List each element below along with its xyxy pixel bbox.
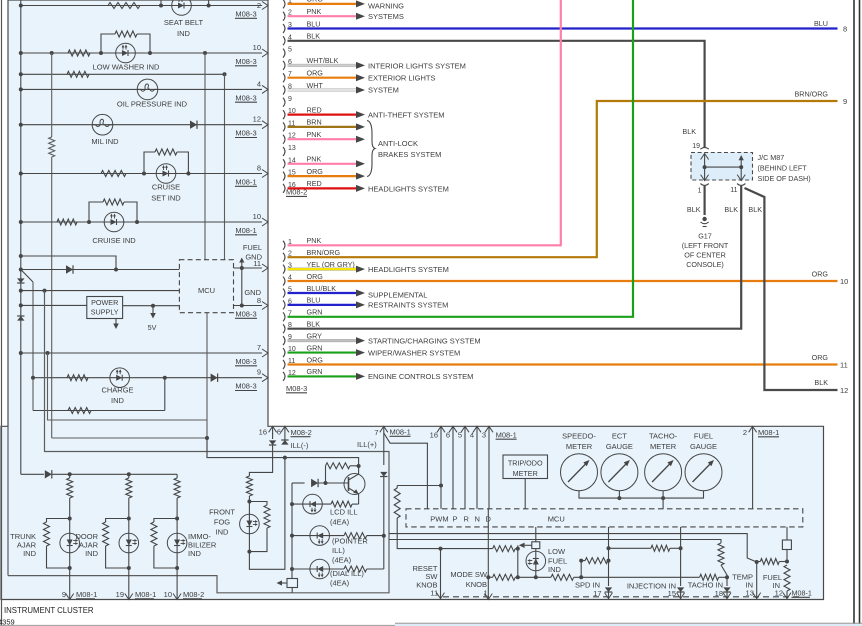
svg-text:CONSOLE): CONSOLE) (686, 260, 724, 269)
mcu bottom wire down (206, 313, 208, 458)
svg-text:12: 12 (840, 386, 848, 395)
svg-text:13: 13 (746, 589, 754, 598)
svg-text:9: 9 (843, 97, 847, 106)
pin 2 M08-1 top (749, 426, 757, 432)
M08-3 pin 9 (283, 336, 285, 345)
svg-text:(4EA): (4EA) (332, 556, 352, 565)
M08-3 pin 11 (283, 360, 285, 369)
wire ORG pin4 to right edge (288, 280, 838, 282)
svg-text:M08-1: M08-1 (792, 589, 812, 598)
DIAL ILL LED (310, 559, 330, 579)
svg-text:BLK: BLK (748, 205, 762, 214)
svg-text:16: 16 (259, 428, 267, 437)
svg-text:GRN: GRN (307, 308, 323, 317)
M08-2 pin 3 (283, 24, 285, 33)
svg-text:ORG: ORG (307, 355, 324, 364)
low fuel feed column (517, 545, 519, 577)
svg-text:BLK: BLK (724, 205, 738, 214)
svg-text:11: 11 (730, 187, 737, 194)
svg-text:OF CENTER: OF CENTER (684, 251, 726, 260)
left vertical bus (20, 0, 22, 474)
svg-text:BLU/BLK: BLU/BLK (307, 284, 337, 293)
svg-text:PNK: PNK (307, 7, 322, 16)
fuel sender resistor row (757, 561, 761, 563)
svg-text:EXTERIOR LIGHTS: EXTERIOR LIGHTS (368, 74, 436, 83)
svg-text:PNK: PNK (307, 130, 322, 139)
svg-text:M08-1: M08-1 (758, 428, 779, 437)
M08-3 pin 12 (283, 372, 285, 381)
dial resistor (344, 566, 367, 572)
svg-text:SUPPLY: SUPPLY (91, 308, 119, 317)
trunk LED (60, 533, 80, 553)
svg-text:R: R (464, 515, 470, 524)
reset sw resistor drop (396, 486, 398, 489)
front fog LED (240, 514, 260, 534)
svg-text:M08-1: M08-1 (235, 226, 256, 235)
svg-text:PNK: PNK (307, 236, 322, 245)
svg-text:ANTI-LOCK: ANTI-LOCK (378, 139, 418, 148)
svg-text:6: 6 (446, 430, 450, 439)
front fog bypass resistor (249, 502, 267, 506)
tacho row / column (700, 574, 719, 580)
svg-text:M08-1: M08-1 (390, 428, 411, 437)
svg-text:SIDE OF DASH): SIDE OF DASH) (758, 174, 811, 183)
svg-text:WHT/BLK: WHT/BLK (307, 56, 339, 65)
svg-text:ILL): ILL) (332, 546, 345, 555)
svg-text:MODE SW: MODE SW (450, 570, 488, 579)
svg-text:M08-3: M08-3 (235, 57, 256, 66)
row y560.6 to spd col (579, 559, 583, 563)
bias resistor (325, 466, 327, 483)
diode on MIL row (190, 121, 197, 129)
fuel in resistor (784, 565, 790, 591)
gauge bus (579, 491, 704, 498)
svg-text:IND: IND (23, 549, 37, 558)
ECT gauge (601, 454, 638, 491)
svg-text:11: 11 (253, 259, 261, 268)
M08-2 pin 2 (283, 12, 285, 21)
POINTER ILL LED (310, 526, 330, 546)
fuel gauge (685, 454, 722, 491)
rail y539.5 from x389 (389, 540, 721, 544)
svg-text:5V: 5V (148, 323, 157, 332)
svg-text:10: 10 (164, 590, 172, 599)
row charge (y=377.7) (31, 376, 35, 380)
svg-text:BLU: BLU (307, 19, 321, 28)
M08-2 pin 10 (283, 110, 285, 119)
svg-text:M08-1: M08-1 (235, 178, 256, 187)
wire down to MCU from low washer row (204, 53, 206, 260)
svg-text:ILL(+): ILL(+) (357, 440, 377, 449)
diagonal from bus to x33 (21, 270, 33, 283)
svg-text:9: 9 (288, 96, 292, 103)
svg-text:WARNING: WARNING (368, 2, 404, 11)
svg-text:HEADLIGHTS SYSTEM: HEADLIGHTS SYSTEM (368, 184, 449, 193)
svg-text:PNK: PNK (307, 155, 322, 164)
diode to transistor base (311, 479, 318, 487)
svg-text:TACHO-: TACHO- (649, 432, 678, 441)
svg-text:GRY: GRY (307, 331, 323, 340)
diode down on bus (17, 278, 24, 283)
transistor Q1 (344, 474, 365, 495)
svg-text:IND: IND (177, 29, 191, 38)
svg-text:8: 8 (257, 164, 261, 173)
svg-text:FOG: FOG (214, 518, 230, 527)
svg-text:12: 12 (253, 115, 261, 124)
door LED (119, 533, 139, 553)
svg-text:RESTRAINTS SYSTEM: RESTRAINTS SYSTEM (368, 301, 448, 310)
svg-text:3: 3 (482, 430, 486, 439)
M08-2 pin 13 (283, 147, 285, 156)
svg-text:SUPPLEMENTAL: SUPPLEMENTAL (368, 291, 427, 300)
lamp oil pressure IND (137, 79, 158, 100)
ILL+ diode (380, 472, 387, 477)
svg-text:YEL (OR GRY): YEL (OR GRY) (307, 260, 355, 269)
M08-3 pin 4 (283, 277, 285, 286)
svg-text:8: 8 (257, 296, 261, 305)
trunk ajar branch (68, 472, 72, 476)
svg-text:ANTI-THEFT SYSTEM: ANTI-THEFT SYSTEM (368, 111, 445, 120)
lamp MIL IND (92, 114, 113, 135)
svg-text:POWER: POWER (91, 298, 118, 307)
svg-text:SEAT BELT: SEAT BELT (164, 18, 204, 27)
svg-text:FRONT: FRONT (209, 508, 235, 517)
x292 vertical (291, 483, 293, 569)
door ajar branch (127, 472, 131, 476)
svg-text:10: 10 (253, 43, 261, 52)
M08-3 pin 2 (283, 253, 285, 262)
svg-text:METER: METER (566, 442, 593, 451)
pin 16 M08-2 ILL- top (269, 426, 277, 432)
immo pin wire down (176, 568, 178, 600)
svg-text:M08-3: M08-3 (235, 129, 256, 138)
svg-text:N: N (475, 515, 480, 524)
svg-text:P: P (453, 515, 458, 524)
right page border double line (853, 0, 855, 626)
pins 16 6 5 4 3 M08-1 top (437, 426, 445, 432)
svg-text:M08-3: M08-3 (235, 93, 256, 102)
svg-text:BLU: BLU (307, 296, 321, 305)
svg-text:5: 5 (288, 47, 292, 54)
svg-text:(LEFT FRONT: (LEFT FRONT (682, 241, 729, 250)
pin7 diagonal branch wire (384, 433, 428, 509)
speedometer gauge (561, 454, 598, 491)
LOW FUEL IND LED (526, 551, 546, 571)
row oil pressure wire (21, 88, 262, 90)
ground G17 symbol (702, 217, 706, 221)
svg-text:MCU: MCU (198, 286, 215, 295)
M08-2 pin 12 (283, 135, 285, 144)
wire BLK pin8 to J/C M87 (288, 186, 742, 329)
svg-text:ORG: ORG (307, 167, 324, 176)
svg-text:BLK: BLK (814, 378, 828, 387)
pin 2 M08-3 seat belt (262, 2, 268, 10)
J/C pin 1 terminal arc (700, 184, 708, 186)
svg-text:LOW WASHER IND: LOW WASHER IND (93, 63, 160, 72)
svg-text:HEADLIGHTS SYSTEM: HEADLIGHTS SYSTEM (368, 265, 449, 274)
svg-text:IND: IND (548, 565, 562, 574)
svg-text:BRN: BRN (307, 118, 322, 127)
svg-text:CRUISE: CRUISE (152, 183, 180, 192)
diode on trunk feed row (45, 470, 52, 478)
J/C internal up arrow (740, 159, 742, 168)
resistor charge (67, 375, 88, 381)
wire ps to mcu with 5V stub (123, 305, 180, 307)
pin 9 M08-3 charge (262, 374, 268, 382)
trunk pin wire down (69, 568, 71, 600)
wire x47.5 feed (48, 353, 208, 420)
svg-text:STARTING/CHARGING SYSTEM: STARTING/CHARGING SYSTEM (368, 336, 481, 345)
wire down to MCU from row2 (224, 74, 226, 259)
svg-text:ENGINE CONTROLS SYSTEM: ENGINE CONTROLS SYSTEM (368, 372, 473, 381)
door pin wire down (128, 568, 130, 600)
svg-text:10: 10 (840, 277, 848, 286)
svg-text:2: 2 (257, 1, 261, 10)
spd column (608, 527, 610, 586)
svg-text:IND: IND (188, 549, 202, 558)
svg-text:SYSTEM: SYSTEM (368, 86, 399, 95)
svg-text:(4EA): (4EA) (330, 518, 350, 527)
M08-2 pin 9 (283, 98, 285, 107)
svg-text:9: 9 (62, 590, 66, 599)
LED charge IND (110, 368, 130, 388)
svg-text:7: 7 (257, 343, 261, 352)
svg-text:1: 1 (698, 188, 702, 195)
off-page square with arrow (291, 569, 293, 579)
wire GRN pin7 up (288, 0, 634, 317)
svg-text:J/C M87: J/C M87 (758, 153, 785, 162)
svg-text:SPEEDO-: SPEEDO- (562, 432, 596, 441)
M08-2 pin 11 (283, 122, 285, 131)
M08-2 pin 15 (283, 172, 285, 181)
svg-text:LOW: LOW (548, 547, 566, 556)
pin 10 M08-1 cruise (262, 218, 268, 226)
row second resistor wire (21, 73, 225, 75)
svg-text:10: 10 (253, 212, 261, 221)
row seat belt wire (21, 5, 262, 7)
M08-2 pin 16 (283, 184, 285, 193)
trip/odo meter box (503, 455, 548, 479)
svg-text:IND: IND (216, 528, 230, 537)
M08-2 pin 5 (283, 49, 285, 58)
ILL- rail to transistor collector done above; base diode row (292, 482, 305, 484)
arrow and square (mcu drive) (519, 543, 525, 548)
rail y533.6 from x389 (389, 534, 757, 562)
injection column (680, 527, 682, 586)
J/C internal bar (705, 166, 742, 168)
mcu gnd pin 8 (234, 305, 263, 307)
svg-text:MCU: MCU (548, 515, 565, 524)
svg-text:CHARGE: CHARGE (101, 386, 133, 395)
ILL+ pin 7 M08-1 top (380, 426, 388, 432)
svg-text:19: 19 (116, 590, 124, 599)
pin 6 M08-2 ILL- top (281, 426, 289, 432)
svg-text:12: 12 (775, 589, 783, 598)
svg-text:BLK: BLK (307, 32, 321, 41)
pin 8 M08-1 cruise set (262, 170, 268, 178)
svg-text:4359: 4359 (0, 618, 15, 626)
svg-text:13: 13 (288, 145, 296, 152)
tachometer gauge (645, 454, 682, 491)
svg-text:ORG: ORG (307, 272, 324, 281)
wire BRN/ORG pin2 to right edge (288, 101, 838, 257)
MCU box bottom (dashed) (406, 509, 803, 527)
svg-text:SET IND: SET IND (151, 194, 181, 203)
row lower resistor loop (y=410.5) (33, 410, 165, 412)
row cruise ind wire (21, 221, 262, 223)
svg-text:BLK: BLK (307, 320, 321, 329)
front fog resistor (246, 476, 252, 496)
wire x51.7 feed (52, 437, 207, 439)
left page border (1, 0, 3, 626)
svg-text:M08-3: M08-3 (286, 384, 307, 393)
svg-text:LCD ILL: LCD ILL (330, 508, 358, 517)
svg-text:GRN: GRN (307, 367, 323, 376)
svg-text:TRIP/ODO: TRIP/ODO (508, 459, 543, 468)
M08-3 pin 10 (283, 348, 285, 357)
M08-2 pin 8 (283, 86, 285, 95)
svg-text:ORG: ORG (307, 69, 324, 78)
M08-3 pin 5 (283, 288, 285, 297)
wire BLK pin4 to J/C M87 (288, 41, 705, 148)
wire pin1 to G17 ground (703, 186, 705, 215)
svg-text:BLK: BLK (682, 127, 696, 136)
svg-text:M08-3: M08-3 (235, 357, 256, 366)
svg-text:9: 9 (257, 368, 261, 377)
brace anti-lock (367, 121, 375, 177)
pin 10 M08-3 low washer (262, 49, 268, 57)
svg-text:CRUISE IND: CRUISE IND (92, 236, 136, 245)
svg-text:RED: RED (307, 105, 322, 114)
node stubs up (cropped) (159, 4, 163, 8)
svg-text:M08-2: M08-2 (291, 428, 312, 437)
wire BLU pin3 to right edge (288, 27, 838, 29)
temp resistor (718, 543, 724, 565)
pin 4 M08-3 oil pressure (262, 85, 268, 93)
pointer resistor (344, 533, 367, 539)
svg-text:(4EA): (4EA) (330, 579, 350, 588)
MCU box top-left (dashed) (179, 260, 233, 313)
front fog to pin6 wire (249, 458, 285, 570)
svg-text:7: 7 (374, 428, 378, 437)
svg-text:11: 11 (840, 361, 848, 370)
svg-text:M08-3: M08-3 (235, 10, 256, 19)
LCD resistor (331, 501, 352, 507)
LED seat belt IND (172, 0, 192, 15)
mode sw row y577.3 (486, 575, 490, 579)
svg-text:ORG: ORG (812, 353, 829, 362)
wire PNK pin1 up (288, 0, 561, 245)
svg-text:4: 4 (470, 430, 474, 439)
junction connector J/C M87 box (691, 153, 753, 181)
svg-text:16: 16 (430, 430, 438, 439)
M08-2 pin 4 (283, 36, 285, 45)
M08-3 pin 1 (283, 241, 285, 250)
svg-text:5: 5 (458, 430, 462, 439)
row to mcu upper (y=256) (19, 254, 23, 258)
door bypass resistor loop (106, 519, 129, 523)
power supply output arrow down (115, 319, 117, 326)
pin16 wire to front fog (249, 445, 272, 476)
svg-text:(POINTER: (POINTER (332, 537, 368, 546)
resistor seat belt (108, 3, 140, 9)
svg-text:ILL(-): ILL(-) (291, 441, 309, 450)
svg-text:BLK: BLK (687, 205, 701, 214)
bus-to-indicator feed row (trunk/door/immo) (21, 473, 44, 475)
wire box-edge drop (7, 426, 9, 575)
svg-text:IND: IND (85, 549, 99, 558)
bypass resistor loop cruise ind (89, 202, 103, 222)
M08-3 pin 7 (283, 312, 285, 321)
resistor row2 (67, 71, 89, 77)
mode sw pin 1 (487, 509, 489, 578)
svg-text:PWM: PWM (430, 515, 448, 524)
wire ORG pin11 to right edge (288, 363, 838, 365)
svg-text:OIL PRESSURE IND: OIL PRESSURE IND (117, 100, 188, 109)
M08-3 pin 3 (283, 265, 285, 274)
row low washer wire (21, 52, 262, 54)
M08-2 pin 1 (283, 0, 285, 8)
wire x44.5 gray feed rail (8, 291, 389, 593)
row to mcu with diode (y=268) (19, 268, 23, 272)
M08-2 pin 6 (283, 61, 285, 70)
svg-text:(DIAL ILL): (DIAL ILL) (330, 569, 364, 578)
svg-text:M08-2: M08-2 (286, 188, 307, 197)
svg-text:WHT: WHT (307, 81, 324, 90)
immo LED (167, 533, 187, 553)
svg-text:ORG: ORG (812, 270, 829, 279)
wire from pin16 col to left (y=485.5) (397, 485, 441, 487)
dashed connector bottom (443, 596, 803, 598)
svg-text:BLU: BLU (814, 19, 828, 28)
svg-text:WIPER/WASHER SYSTEM: WIPER/WASHER SYSTEM (368, 348, 460, 357)
row to mcu (y=290.6) (19, 289, 23, 293)
svg-text:INSTRUMENT CLUSTER: INSTRUMENT CLUSTER (4, 606, 94, 615)
trunk bypass resistor loop (47, 519, 70, 523)
J/C internal left pin (701, 154, 709, 160)
svg-text:M08-1: M08-1 (76, 590, 97, 599)
svg-text:BRN/ORG: BRN/ORG (307, 248, 341, 257)
svg-text:1: 1 (484, 589, 488, 598)
svg-text:M08-1: M08-1 (135, 590, 156, 599)
svg-text:11: 11 (430, 589, 438, 598)
pin 12 M08-3 MIL (262, 121, 268, 129)
bypass resistor loop low washer (101, 34, 115, 53)
LED low washer IND (116, 43, 136, 63)
diode up on bus (17, 316, 24, 321)
svg-text:2: 2 (743, 428, 747, 437)
resistor cruise set (101, 171, 126, 177)
M08-3 pin 6 (283, 300, 285, 309)
svg-text:M08-1: M08-1 (496, 430, 517, 439)
x33 vertical wire (32, 282, 34, 411)
svg-text:GAUGE: GAUGE (606, 442, 633, 451)
svg-text:6: 6 (277, 428, 281, 437)
LCD ILL LED (303, 494, 323, 514)
temp column (755, 560, 759, 564)
fuel in column from mcu (786, 527, 788, 540)
bottom next-sheet strip (395, 622, 862, 624)
row cruise set wire (21, 173, 262, 175)
svg-text:M08-3: M08-3 (235, 382, 256, 391)
svg-text:METER: METER (650, 442, 677, 451)
row to power supply (y=305.4) (19, 303, 23, 307)
svg-text:FUEL: FUEL (243, 243, 262, 252)
svg-text:M08-3: M08-3 (235, 310, 256, 319)
svg-text:GAUGE: GAUGE (690, 442, 717, 451)
M08-3 pin 8 (283, 324, 285, 333)
wire BLK from J/C to right edge exit 12 (745, 188, 838, 390)
